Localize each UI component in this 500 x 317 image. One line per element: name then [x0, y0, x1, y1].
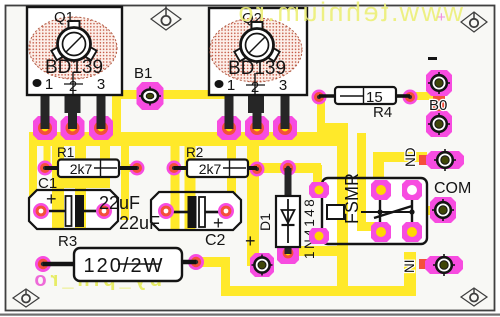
- svg-text:ND: ND: [403, 147, 418, 167]
- svg-text:D1: D1: [257, 213, 273, 231]
- svg-text:2: 2: [251, 79, 259, 96]
- svg-text:120/2W: 120/2W: [84, 255, 165, 277]
- svg-text:3: 3: [279, 77, 287, 94]
- svg-text:Q1: Q1: [54, 9, 74, 26]
- svg-text:+: +: [245, 231, 256, 251]
- svg-text:B0: B0: [429, 97, 447, 114]
- svg-text:2: 2: [69, 78, 77, 95]
- svg-text:R4: R4: [373, 104, 392, 121]
- svg-text:22uF: 22uF: [99, 193, 140, 213]
- svg-text:BD139: BD139: [45, 57, 103, 78]
- svg-text:COM: COM: [434, 180, 471, 197]
- svg-text:C2: C2: [205, 232, 226, 249]
- svg-text:www.tehnium.ro: www.tehnium.ro: [236, 0, 464, 27]
- svg-text:+: +: [46, 189, 57, 209]
- svg-text:NI: NI: [402, 260, 417, 274]
- svg-text:+: +: [437, 9, 446, 26]
- svg-text:C1: C1: [38, 175, 57, 192]
- svg-text:FSMR: FSMR: [342, 173, 362, 224]
- svg-text:1N4148: 1N4148: [302, 197, 317, 259]
- svg-text:22uF: 22uF: [119, 213, 160, 233]
- svg-text:R1: R1: [57, 145, 74, 160]
- svg-text:1: 1: [227, 77, 235, 94]
- svg-text:R3: R3: [58, 233, 77, 250]
- svg-text:R2: R2: [186, 145, 203, 160]
- svg-text:3: 3: [97, 76, 105, 93]
- svg-text:+: +: [213, 213, 224, 233]
- svg-text:2k7: 2k7: [199, 161, 222, 177]
- svg-text:2k7: 2k7: [70, 161, 93, 177]
- svg-text:BD139: BD139: [228, 58, 286, 79]
- svg-text:1: 1: [45, 76, 53, 93]
- svg-text:B1: B1: [134, 65, 152, 82]
